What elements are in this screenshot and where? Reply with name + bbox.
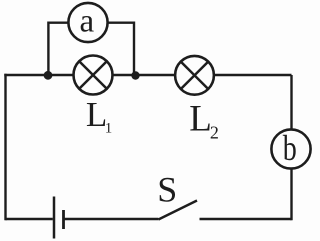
svg-text:1: 1 [105, 120, 113, 136]
svg-text:a: a [80, 3, 95, 39]
svg-text:2: 2 [210, 123, 219, 143]
svg-text:S: S [157, 169, 177, 209]
svg-text:L: L [189, 99, 212, 140]
svg-text:b: b [283, 128, 297, 168]
